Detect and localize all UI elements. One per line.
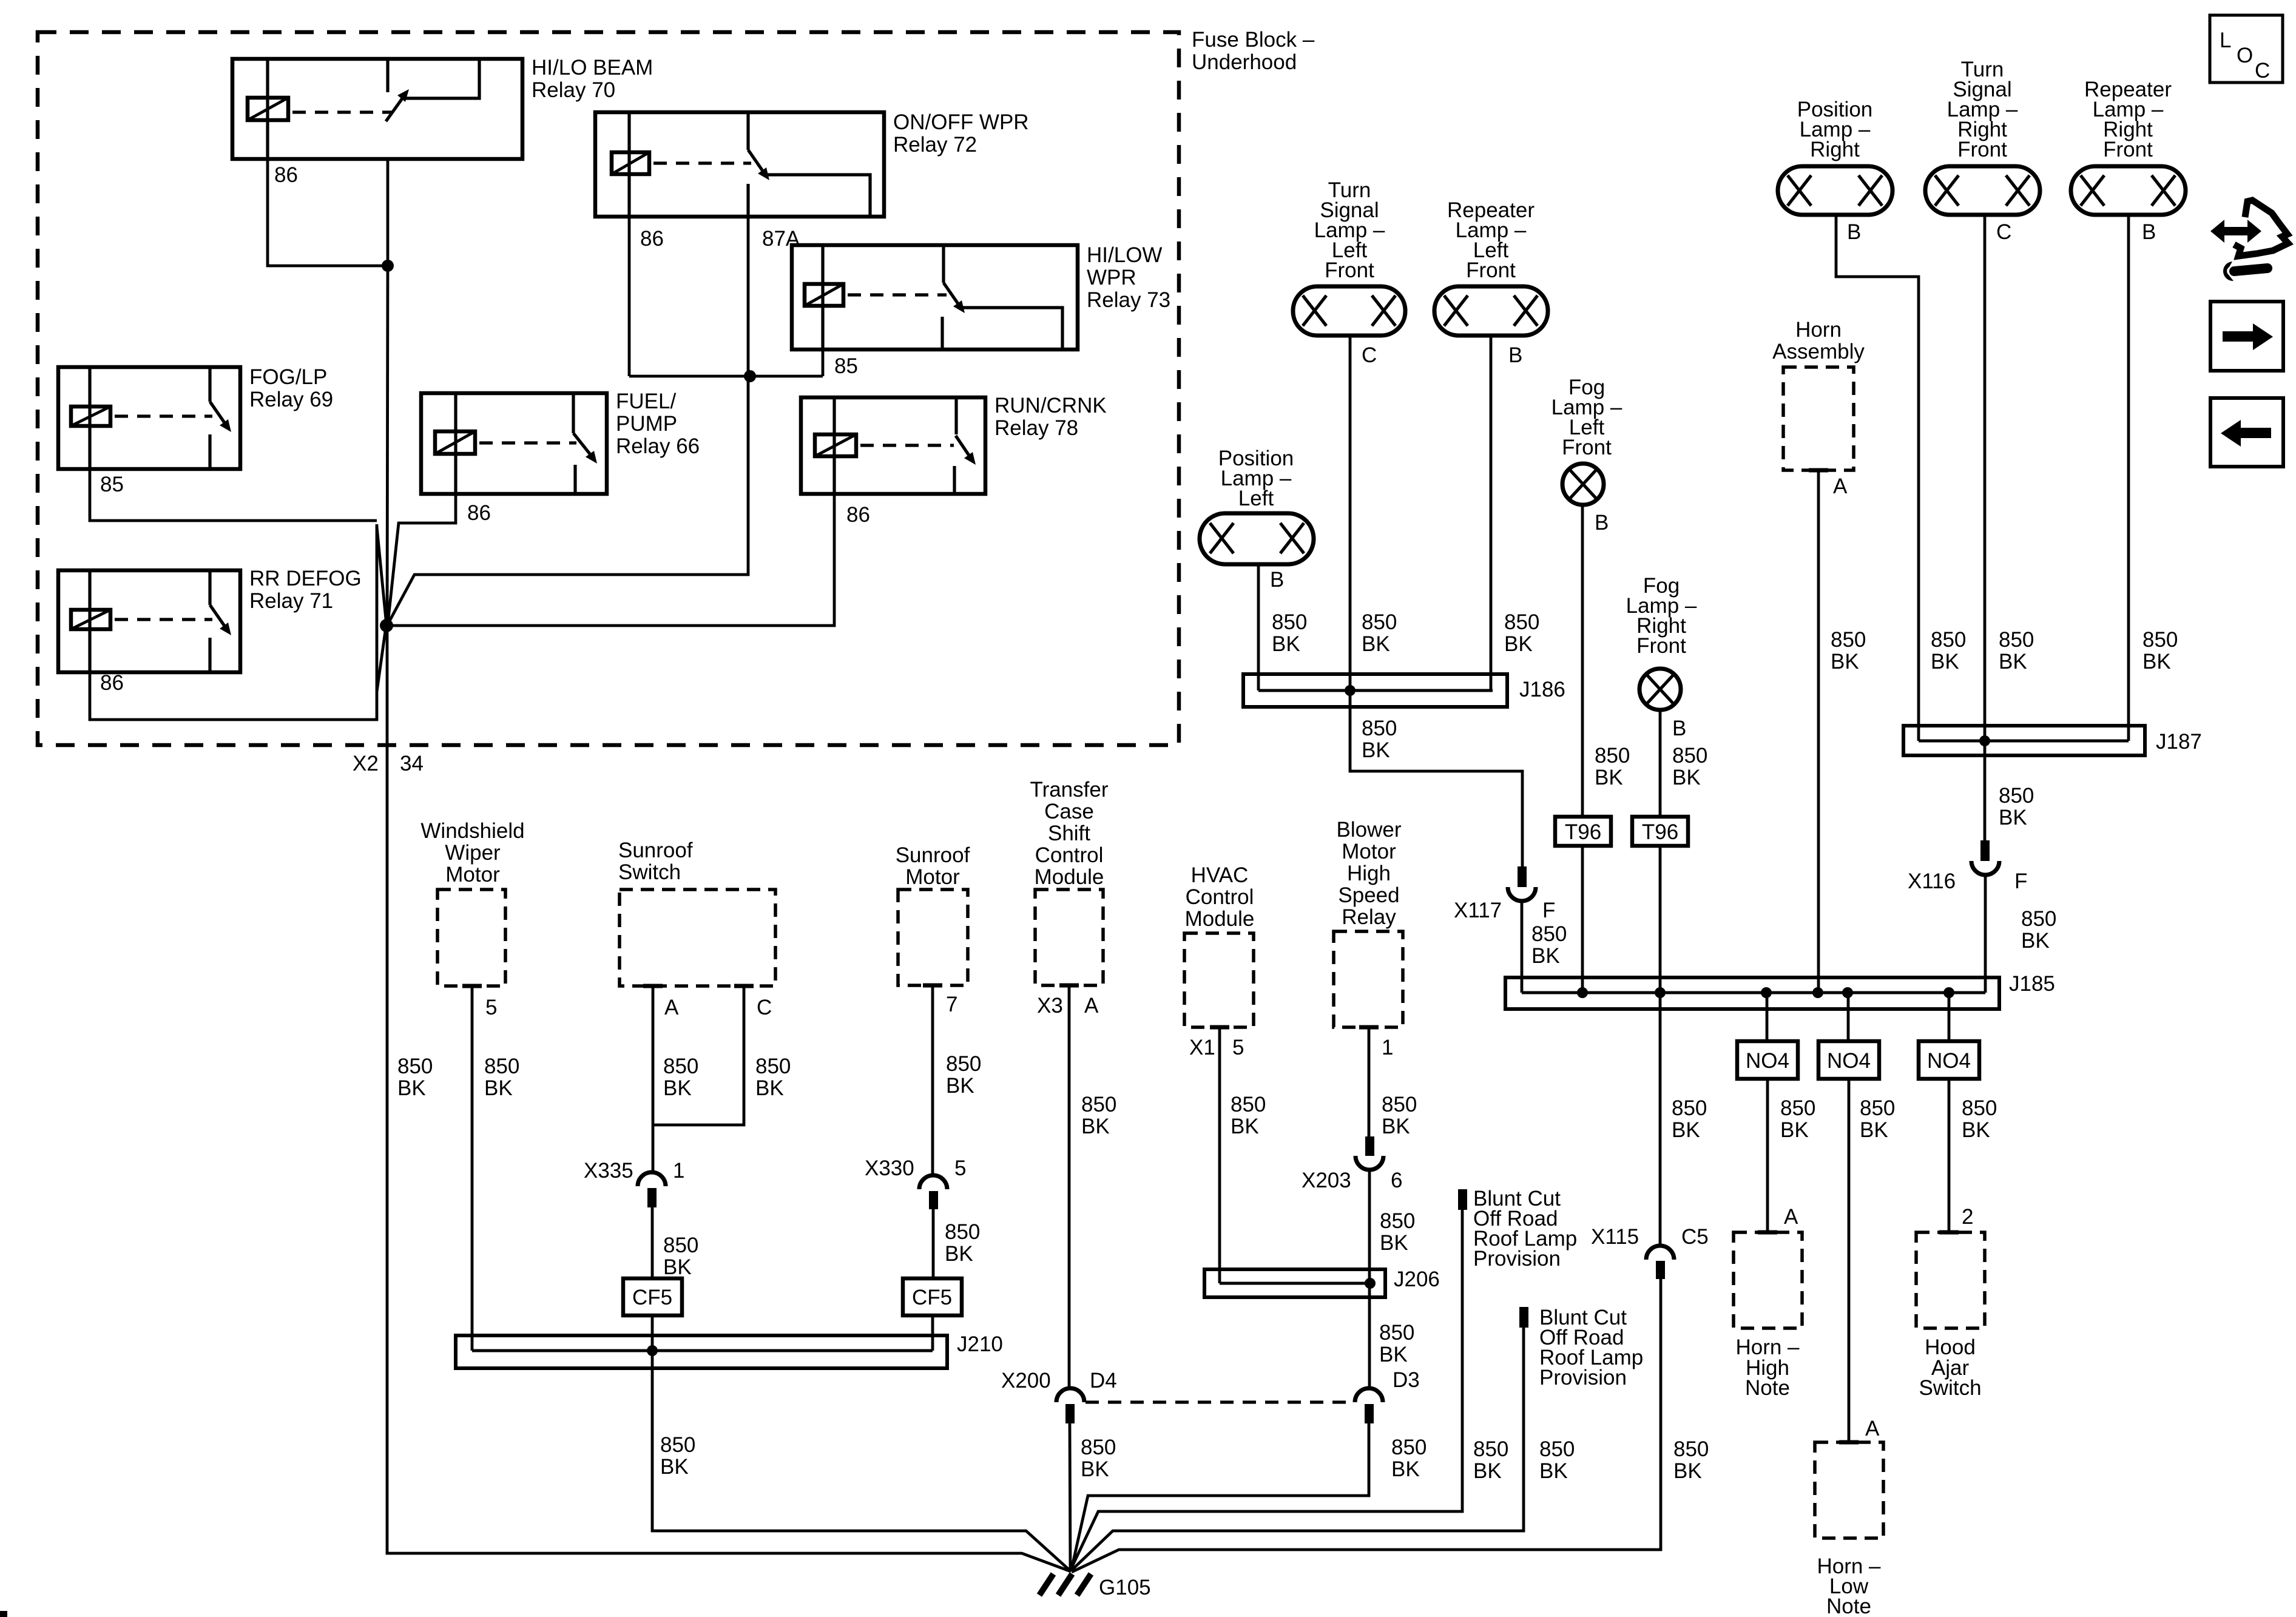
svg-text:86: 86 <box>846 503 870 527</box>
inline connector X200 / D4 <box>1056 1388 1084 1423</box>
svg-text:BK: BK <box>1539 1459 1568 1483</box>
relay U73 coil-switch dashed link <box>848 293 947 296</box>
svg-text:BK: BK <box>1362 632 1390 656</box>
svg-text:Module: Module <box>1185 907 1255 931</box>
svg-text:X1: X1 <box>1189 1036 1215 1059</box>
svg-text:1: 1 <box>1382 1036 1393 1059</box>
lamp E7 Fog Lamp Left Front <box>1562 464 1604 505</box>
svg-text:Motor: Motor <box>905 865 960 889</box>
thermal fuse T96 left <box>1555 817 1611 846</box>
wire T96 right through J185 to X115 <box>1659 846 1662 1246</box>
svg-text:850: 850 <box>1081 1093 1116 1116</box>
svg-text:J206: J206 <box>1394 1268 1440 1291</box>
svg-text:7: 7 <box>946 993 957 1016</box>
relay U66 coil-switch dashed link <box>479 441 576 444</box>
svg-text:Control: Control <box>1186 885 1254 909</box>
inline connector X335 <box>638 1172 666 1207</box>
back arrow box <box>2210 398 2283 467</box>
relay U71 inner stub <box>208 638 211 672</box>
wire relay66 pin86 run <box>388 494 456 624</box>
wire X116 to J185 <box>1984 875 1987 993</box>
wire T96 left to J185 <box>1581 846 1584 993</box>
wire NO4 first to horn high note <box>1766 1079 1769 1232</box>
relay U78 pin30 stub <box>954 397 957 434</box>
relay U66 FUEL/PUMP box <box>421 393 607 494</box>
relay U69 coil <box>71 407 110 426</box>
svg-text:850: 850 <box>1539 1437 1575 1461</box>
wire relay71 pin86 run <box>90 524 377 720</box>
svg-text:850: 850 <box>1379 1321 1414 1345</box>
svg-text:850: 850 <box>1504 610 1539 634</box>
fuse NO4 second <box>1818 1041 1879 1079</box>
wire relay78 pin86 run to splice <box>391 494 834 626</box>
junction dot relay70 wires <box>382 260 394 272</box>
relay U71 coil <box>71 610 110 629</box>
svg-text:BK: BK <box>1672 1118 1700 1142</box>
svg-text:BK: BK <box>1231 1115 1259 1138</box>
svg-text:J210: J210 <box>957 1332 1003 1356</box>
svg-text:850: 850 <box>1231 1093 1266 1116</box>
svg-text:BK: BK <box>1081 1457 1109 1481</box>
svg-text:850: 850 <box>1831 628 1866 652</box>
wire NO4 third to hood ajar switch <box>1948 1079 1951 1232</box>
fuse CF5 right <box>903 1278 962 1315</box>
wire J187 out to X116 <box>1984 741 1987 842</box>
svg-text:F: F <box>2014 869 2027 893</box>
horn high note dashed box <box>1734 1232 1802 1328</box>
svg-text:Relay 78: Relay 78 <box>994 416 1078 440</box>
svg-text:X3: X3 <box>1037 994 1063 1018</box>
svg-text:86: 86 <box>274 163 298 187</box>
svg-text:BK: BK <box>1380 1231 1408 1255</box>
svg-text:BK: BK <box>1379 1343 1408 1366</box>
svg-text:Module: Module <box>1035 865 1104 889</box>
blunt cut wire 1 terminal <box>1458 1189 1467 1210</box>
relay U69 inner stub <box>208 434 211 469</box>
svg-text:Front: Front <box>1325 258 1374 282</box>
svg-text:Note: Note <box>1745 1376 1790 1400</box>
svg-text:5: 5 <box>485 996 497 1019</box>
svg-text:NO4: NO4 <box>1827 1049 1871 1073</box>
svg-text:850: 850 <box>1673 1437 1709 1461</box>
svg-text:850: 850 <box>2021 907 2056 931</box>
svg-text:Front: Front <box>1636 634 1686 658</box>
svg-text:850: 850 <box>1081 1436 1116 1459</box>
wire J210 out to G105 <box>652 1351 1070 1570</box>
relay U78 RUN/CRNK box <box>801 397 985 494</box>
svg-text:D3: D3 <box>1393 1368 1420 1392</box>
svg-text:Case: Case <box>1044 800 1094 823</box>
svg-text:850: 850 <box>945 1220 980 1244</box>
svg-text:850: 850 <box>1391 1436 1427 1459</box>
splice junction of fuse block grounds <box>380 619 393 632</box>
svg-text:Transfer: Transfer <box>1030 778 1108 802</box>
svg-text:Left: Left <box>1238 487 1274 510</box>
wire X203 through J206 to D3 <box>1368 1170 1371 1390</box>
svg-text:Provision: Provision <box>1473 1247 1561 1271</box>
wire X115 to G105 <box>1072 1279 1661 1572</box>
svg-text:850: 850 <box>663 1055 698 1078</box>
wire wiper motor to J210 <box>471 986 474 1351</box>
svg-text:B: B <box>1508 343 1522 367</box>
wire horn assembly to J185 <box>1817 470 1820 993</box>
relay U73 coil <box>805 284 843 306</box>
relay U69 FOG/LP box <box>58 367 240 469</box>
wire blower relay to X203 <box>1368 1027 1371 1138</box>
svg-text:X200: X200 <box>1001 1369 1051 1393</box>
relay U71 switch blade <box>210 605 226 629</box>
svg-text:850: 850 <box>1382 1093 1417 1116</box>
svg-text:A: A <box>1084 994 1099 1018</box>
svg-text:C: C <box>1996 220 2011 244</box>
svg-text:B: B <box>1595 511 1609 535</box>
relay U66 inner stub <box>573 465 576 494</box>
relay U69 pin30 stub <box>208 367 211 402</box>
relay U78 inner stub <box>953 466 956 494</box>
inline connector X203 <box>1356 1136 1383 1170</box>
horn assembly dashed box <box>1783 367 1854 470</box>
svg-text:Switch: Switch <box>618 860 681 884</box>
svg-text:5: 5 <box>1232 1036 1244 1059</box>
svg-text:850: 850 <box>397 1055 433 1078</box>
svg-text:Relay 70: Relay 70 <box>532 78 615 102</box>
wire J185 to NO4 second <box>1847 993 1850 1041</box>
relay U70 switch blade <box>386 96 404 121</box>
wire fog lamp right to T96 <box>1659 710 1662 817</box>
svg-text:BK: BK <box>1831 650 1859 673</box>
svg-text:850: 850 <box>1362 717 1397 740</box>
splice pack J185 <box>1505 977 1999 1009</box>
splice pack J187 <box>1903 726 2145 755</box>
stray period bottom left <box>0 1611 7 1617</box>
relay U70 HI/LO BEAM box <box>232 59 522 159</box>
svg-text:J185: J185 <box>2009 972 2055 996</box>
svg-text:A: A <box>1784 1205 1798 1229</box>
relay U78 coil-switch dashed link <box>860 444 954 447</box>
blunt cut wire 2 run to G105 <box>1071 1328 1524 1571</box>
fuse CF5 left <box>623 1278 682 1315</box>
svg-text:Speed: Speed <box>1338 883 1399 907</box>
wire relay70 pin86 drop <box>268 159 388 266</box>
svg-text:Front: Front <box>1466 258 1516 282</box>
wire relay72 pin87A drop <box>388 217 748 624</box>
svg-text:BK: BK <box>2021 929 2050 953</box>
svg-text:850: 850 <box>1473 1437 1508 1461</box>
svg-text:RUN/CRNK: RUN/CRNK <box>994 394 1107 417</box>
lamp E2 Repeater Lamp Left Front <box>1434 286 1548 336</box>
svg-text:BK: BK <box>663 1076 692 1100</box>
svg-text:Relay 72: Relay 72 <box>893 133 977 157</box>
svg-text:Fuse Block –: Fuse Block – <box>1192 28 1315 52</box>
relay U73 switch blade <box>944 283 960 306</box>
svg-text:X116: X116 <box>1908 869 1956 893</box>
wire relay70 junction to main splice <box>387 266 388 624</box>
svg-text:86: 86 <box>467 501 491 525</box>
terminal bars at dashed component boxes <box>462 470 1959 1442</box>
svg-text:B: B <box>1672 717 1686 740</box>
svg-text:850: 850 <box>1595 744 1630 768</box>
svg-text:NO4: NO4 <box>1927 1049 1971 1073</box>
wire X117 to J185 <box>1521 901 1524 993</box>
svg-text:BK: BK <box>1081 1115 1110 1138</box>
svg-text:Shift: Shift <box>1048 822 1090 845</box>
relay U72 pin30 stub <box>746 112 749 150</box>
svg-text:RR DEFOG: RR DEFOG <box>249 567 362 590</box>
splice pack J206 <box>1204 1269 1385 1297</box>
svg-text:T96: T96 <box>1565 820 1601 844</box>
svg-text:BK: BK <box>1473 1459 1502 1483</box>
svg-text:T96: T96 <box>1642 820 1678 844</box>
relay U72 coil <box>612 152 649 174</box>
svg-text:5: 5 <box>954 1156 966 1180</box>
LOC legend box top right <box>2210 15 2283 83</box>
relay U71 pin30 stub <box>208 570 211 605</box>
relay U70 coil pin line <box>266 59 269 159</box>
svg-text:F: F <box>1542 899 1555 922</box>
relay U70 pin30 stub <box>386 59 389 92</box>
relay U72 pin 87A inner stub <box>746 184 749 217</box>
svg-text:X115: X115 <box>1591 1225 1639 1249</box>
lamp E3 Position Lamp Left <box>1200 513 1314 564</box>
svg-text:B: B <box>1847 220 1861 244</box>
svg-text:Relay 71: Relay 71 <box>249 589 333 613</box>
splice pack J210 <box>456 1335 947 1368</box>
svg-text:BK: BK <box>1672 766 1701 789</box>
fuse NO4 third <box>1919 1041 1979 1079</box>
wire sunroof switch pin C <box>654 986 744 1125</box>
wire turn signal right to J187 <box>1984 215 1987 741</box>
svg-text:Provision: Provision <box>1539 1366 1627 1389</box>
svg-text:850: 850 <box>484 1055 519 1078</box>
svg-text:BK: BK <box>397 1076 426 1100</box>
wire CF5 right to J210 <box>931 1315 934 1351</box>
wire fog lamp left to T96 <box>1581 504 1584 817</box>
relay U71 coil-switch dashed link <box>115 618 212 621</box>
svg-text:X330: X330 <box>865 1156 914 1180</box>
wire 85/86 tie bar relays 72-73 <box>629 375 823 378</box>
svg-text:850: 850 <box>1362 610 1397 634</box>
inline connector X330 <box>919 1175 947 1209</box>
svg-text:Switch: Switch <box>1919 1376 1981 1400</box>
svg-text:Relay 73: Relay 73 <box>1087 288 1170 312</box>
horn low note dashed box <box>1815 1442 1883 1538</box>
svg-text:J187: J187 <box>2156 730 2202 754</box>
svg-text:BK: BK <box>1362 738 1390 762</box>
svg-text:Front: Front <box>1562 436 1612 459</box>
fuse block underhood dashed box <box>38 32 1179 745</box>
wire repeater left to J186 <box>1490 336 1493 690</box>
svg-text:G105: G105 <box>1099 1576 1151 1599</box>
wire position lamp right to J187 <box>1836 215 1919 741</box>
svg-text:Motor: Motor <box>1342 840 1396 863</box>
svg-text:Right: Right <box>1810 138 1860 161</box>
svg-text:BK: BK <box>945 1242 973 1266</box>
svg-text:C: C <box>757 996 772 1019</box>
svg-text:BK: BK <box>1931 650 1959 673</box>
svg-text:A: A <box>664 996 679 1019</box>
svg-text:850: 850 <box>1531 922 1567 946</box>
dashed provision link D4-D3 <box>1086 1400 1354 1403</box>
svg-text:850: 850 <box>1860 1096 1895 1120</box>
svg-text:86: 86 <box>100 671 124 695</box>
svg-text:FOG/LP: FOG/LP <box>249 365 327 389</box>
fuse NO4 first <box>1737 1041 1798 1079</box>
relay U69 coil-switch dashed link <box>115 414 212 417</box>
svg-text:A: A <box>1865 1417 1880 1440</box>
blower motor high speed relay dashed box <box>1334 931 1403 1027</box>
HVAC control module dashed box <box>1184 933 1254 1027</box>
svg-text:Relay 66: Relay 66 <box>616 434 700 458</box>
svg-text:Relay: Relay <box>1342 905 1396 929</box>
inline connector X115 <box>1646 1246 1674 1279</box>
svg-text:A: A <box>1833 474 1848 498</box>
svg-text:CF5: CF5 <box>632 1286 672 1309</box>
svg-text:85: 85 <box>834 354 858 378</box>
svg-text:J186: J186 <box>1519 678 1565 701</box>
svg-text:850: 850 <box>1380 1209 1415 1233</box>
relay U70 contact to pin87A <box>403 59 479 98</box>
relay U66 pin30 stub <box>572 393 575 433</box>
inline connector X117 <box>1508 866 1536 901</box>
relay U71 RR DEFOG box <box>58 570 240 672</box>
svg-text:Horn: Horn <box>1795 318 1842 342</box>
wire sunroof motor to X330 <box>931 985 934 1176</box>
hood ajar switch dashed box <box>1916 1232 1985 1328</box>
wire J185 to NO4 third <box>1948 993 1951 1041</box>
splice pack J186 <box>1243 674 1507 707</box>
relay U66 coil <box>435 431 475 454</box>
relay U72 contact <box>763 175 870 217</box>
relay U70 coil <box>248 98 288 120</box>
lamp E1 Turn Signal Lamp Left Front <box>1293 286 1405 336</box>
wire position lamp left to J186 <box>1257 564 1260 690</box>
svg-text:2: 2 <box>1962 1205 1973 1229</box>
svg-text:850: 850 <box>1931 628 1966 652</box>
wire turn signal left to J186 <box>1349 336 1352 690</box>
svg-text:6: 6 <box>1391 1169 1402 1192</box>
svg-text:BK: BK <box>1504 632 1533 656</box>
svg-text:Control: Control <box>1035 843 1104 867</box>
svg-text:850: 850 <box>1780 1096 1815 1120</box>
svg-text:850: 850 <box>1672 1096 1707 1120</box>
wire relay73 pin85 drop <box>822 349 825 376</box>
svg-text:BK: BK <box>1962 1118 1990 1142</box>
svg-text:HVAC: HVAC <box>1191 863 1249 887</box>
inline connector D3 <box>1355 1388 1383 1423</box>
blunt cut wire 2 terminal <box>1519 1307 1528 1328</box>
svg-text:Front: Front <box>1957 138 2007 161</box>
wire sunroof switch pin A <box>652 986 655 1172</box>
svg-text:B: B <box>1270 568 1284 592</box>
svg-text:BK: BK <box>1999 650 2027 673</box>
relay U73 inner stub <box>940 317 944 349</box>
svg-text:PUMP: PUMP <box>616 412 677 436</box>
svg-text:Blower: Blower <box>1337 818 1402 842</box>
relay U72 ON/OFF WPR box <box>595 112 884 217</box>
svg-text:850: 850 <box>1272 610 1307 634</box>
relay U70 coil-switch dashed link <box>292 110 393 113</box>
lamp E6 Repeater Lamp Right Front <box>2071 166 2186 215</box>
wire relay72 pin86 drop to 85 bus <box>628 217 631 376</box>
svg-text:C5: C5 <box>1681 1225 1709 1249</box>
svg-text:ON/OFF WPR: ON/OFF WPR <box>893 110 1029 134</box>
svg-text:Sunroof: Sunroof <box>896 843 970 867</box>
lamp E4 Position Lamp Right <box>1778 166 1893 215</box>
service icon hand with double arrow and wrench <box>2210 200 2288 281</box>
svg-text:O: O <box>2237 44 2253 67</box>
svg-text:X2: X2 <box>353 752 379 775</box>
svg-text:Sunroof: Sunroof <box>618 839 693 862</box>
svg-text:BK: BK <box>1382 1115 1410 1138</box>
transfer case shift control module dashed box <box>1035 890 1103 985</box>
svg-text:BK: BK <box>660 1455 689 1479</box>
svg-text:FUEL/: FUEL/ <box>616 390 676 413</box>
wire NO4 second to horn low note <box>1848 1079 1851 1442</box>
svg-text:1: 1 <box>673 1159 684 1183</box>
svg-text:C: C <box>1362 343 1377 367</box>
sunroof switch dashed box <box>620 890 775 986</box>
svg-text:X203: X203 <box>1302 1169 1351 1192</box>
relay U78 coil <box>815 434 856 456</box>
svg-text:BK: BK <box>946 1074 974 1098</box>
wire main ground feed X2-34 <box>387 626 1071 1571</box>
wire transfer case to X200 <box>1068 985 1071 1390</box>
svg-text:86: 86 <box>640 227 664 251</box>
svg-text:BK: BK <box>1272 632 1300 656</box>
wire X200 to G105 <box>1070 1423 1070 1570</box>
svg-text:BK: BK <box>1860 1118 1888 1142</box>
svg-text:BK: BK <box>1391 1457 1420 1481</box>
lamp E5 Turn Signal Lamp Right Front <box>1925 166 2040 215</box>
svg-text:HI/LO BEAM: HI/LO BEAM <box>532 56 653 79</box>
wire J186 out via X117 to J185 <box>1350 690 1522 868</box>
wire splice bundle diagonals <box>377 527 387 626</box>
wire CF5 left to J210 <box>651 1315 654 1351</box>
svg-text:D4: D4 <box>1090 1369 1117 1393</box>
wire HVAC to J206 <box>1218 1027 1221 1283</box>
svg-text:NO4: NO4 <box>1746 1049 1789 1073</box>
svg-text:BK: BK <box>484 1076 513 1100</box>
svg-text:850: 850 <box>946 1052 981 1076</box>
svg-text:85: 85 <box>100 473 124 496</box>
wire D3 to G105 <box>1072 1423 1369 1569</box>
svg-text:BK: BK <box>663 1255 692 1279</box>
svg-text:850: 850 <box>663 1234 698 1257</box>
svg-text:CF5: CF5 <box>912 1286 952 1309</box>
relay U72 coil-switch dashed link <box>653 161 751 164</box>
windshield wiper motor dashed box <box>437 890 505 986</box>
ground G105 symbol <box>1039 1574 1091 1595</box>
thermal fuse T96 right <box>1632 817 1688 846</box>
svg-text:850: 850 <box>1962 1096 1997 1120</box>
forward arrow box <box>2210 302 2283 371</box>
svg-text:850: 850 <box>1999 628 2034 652</box>
svg-text:WPR: WPR <box>1087 266 1136 289</box>
wire relay70 switch drop <box>387 159 390 266</box>
svg-text:BK: BK <box>1595 766 1623 789</box>
svg-text:34: 34 <box>400 752 424 775</box>
svg-text:Note: Note <box>1826 1595 1871 1617</box>
svg-text:BK: BK <box>1999 806 2027 829</box>
svg-text:HI/LOW: HI/LOW <box>1087 243 1162 267</box>
svg-text:BK: BK <box>1531 944 1560 968</box>
wire J185 to NO4 first <box>1766 993 1769 1041</box>
junction dot 87A tie <box>744 370 756 382</box>
svg-text:High: High <box>1347 862 1391 885</box>
lamp E8 Fog Lamp Right Front <box>1639 669 1681 710</box>
relay U73 HI/LOW WPR box <box>792 245 1078 349</box>
relay U72 switch blade <box>748 150 765 174</box>
